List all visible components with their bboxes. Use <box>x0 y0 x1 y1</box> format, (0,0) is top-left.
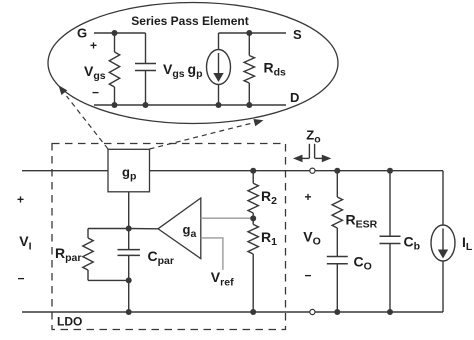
svg-text:−: − <box>92 86 99 100</box>
svg-text:D: D <box>290 90 299 105</box>
svg-text:+: + <box>17 193 24 207</box>
svg-text:G: G <box>77 25 87 40</box>
svg-text:S: S <box>293 27 302 42</box>
svg-text:+: + <box>305 190 312 204</box>
svg-text:−: − <box>305 269 312 283</box>
svg-text:Series Pass Element: Series Pass Element <box>131 14 248 28</box>
svg-text:+: + <box>90 39 97 53</box>
svg-text:−: − <box>18 272 25 286</box>
svg-text:LDO: LDO <box>57 314 82 328</box>
